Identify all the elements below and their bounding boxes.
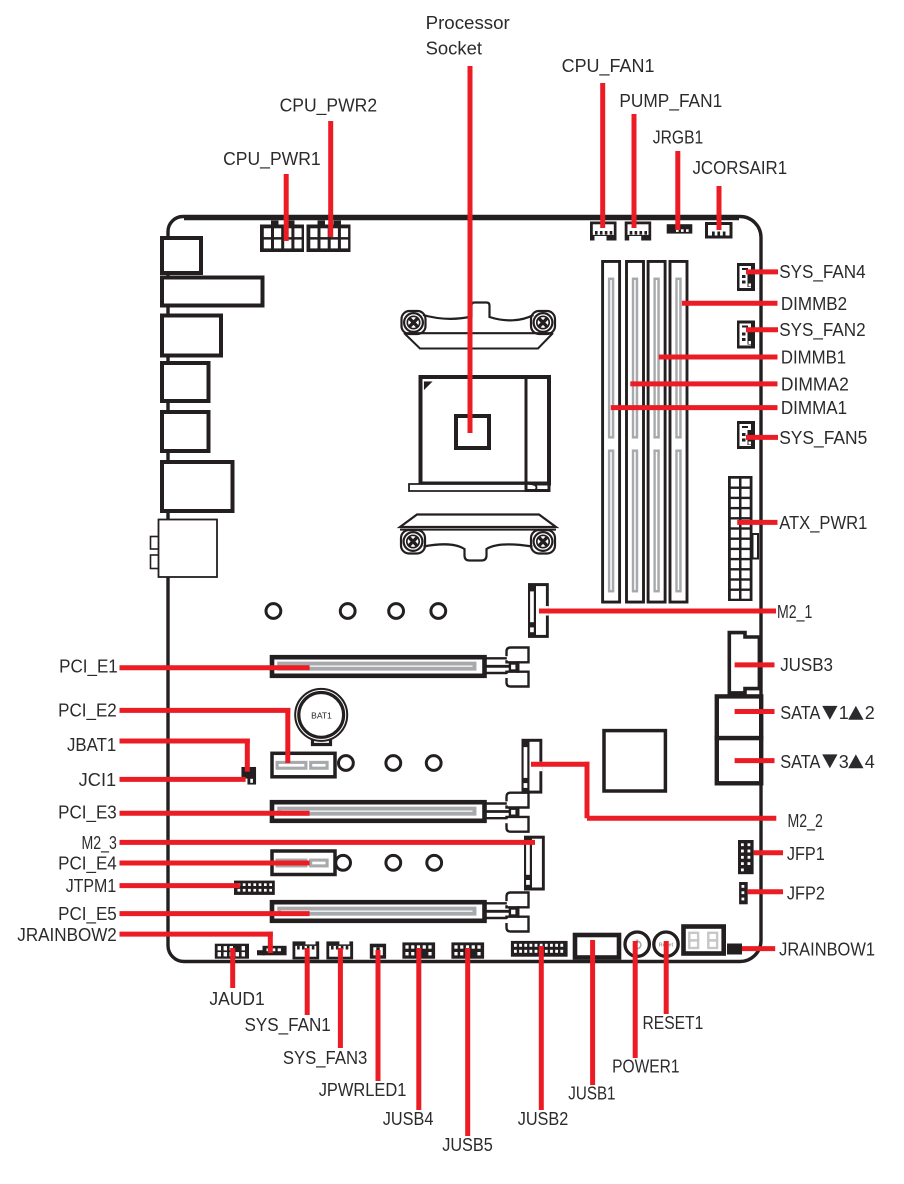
svg-text:PCI_E4: PCI_E4: [58, 853, 117, 874]
svg-text:JCORSAIR1: JCORSAIR1: [693, 158, 788, 178]
svg-text:M2_2: M2_2: [788, 811, 823, 832]
svg-text:JFP2: JFP2: [787, 884, 825, 904]
svg-text:JBAT1: JBAT1: [67, 735, 116, 755]
svg-text:DIMMA1: DIMMA1: [781, 398, 847, 418]
svg-text:DIMMB2: DIMMB2: [781, 294, 847, 314]
svg-text:M2_1: M2_1: [777, 602, 812, 623]
svg-text:JUSB2: JUSB2: [518, 1109, 569, 1129]
svg-text:SYS_FAN1: SYS_FAN1: [245, 1015, 331, 1036]
svg-text:POWER1: POWER1: [612, 1057, 680, 1077]
svg-text:JAUD1: JAUD1: [209, 989, 264, 1009]
svg-text:PCI_E3: PCI_E3: [58, 803, 117, 824]
svg-text:JPWRLED1: JPWRLED1: [319, 1080, 407, 1100]
svg-text:JTPM1: JTPM1: [66, 876, 117, 896]
svg-text:1: 1: [839, 703, 849, 723]
svg-text:DIMMB1: DIMMB1: [781, 348, 846, 368]
svg-text:Processor: Processor: [426, 13, 510, 33]
svg-text:SYS_FAN3: SYS_FAN3: [283, 1048, 367, 1069]
svg-text:4: 4: [865, 752, 875, 772]
svg-text:JFP1: JFP1: [787, 844, 825, 864]
svg-text:ATX_PWR1: ATX_PWR1: [779, 513, 867, 534]
svg-text:BAT1: BAT1: [311, 711, 332, 721]
svg-text:PUMP_FAN1: PUMP_FAN1: [619, 91, 722, 112]
svg-text:JRGB1: JRGB1: [653, 128, 703, 148]
svg-text:RESET1: RESET1: [643, 1013, 704, 1033]
svg-text:SYS_FAN2: SYS_FAN2: [779, 320, 865, 341]
svg-text:SATA: SATA: [780, 752, 820, 772]
svg-text:2: 2: [865, 703, 875, 723]
svg-text:CPU_FAN1: CPU_FAN1: [562, 56, 655, 77]
svg-text:JUSB5: JUSB5: [442, 1135, 493, 1155]
svg-text:Socket: Socket: [426, 39, 482, 59]
svg-text:PCI_E2: PCI_E2: [58, 701, 117, 722]
svg-text:JUSB1: JUSB1: [568, 1084, 615, 1104]
svg-text:JUSB3: JUSB3: [780, 655, 833, 675]
svg-text:M2_3: M2_3: [82, 833, 117, 854]
svg-text:CPU_PWR2: CPU_PWR2: [280, 96, 378, 117]
svg-text:JRAINBOW1: JRAINBOW1: [779, 940, 875, 960]
svg-text:PCI_E5: PCI_E5: [58, 904, 117, 925]
svg-text:CPU_PWR1: CPU_PWR1: [223, 149, 321, 170]
svg-text:DIMMA2: DIMMA2: [781, 375, 849, 395]
svg-text:SATA: SATA: [780, 703, 820, 723]
svg-text:JRAINBOW2: JRAINBOW2: [17, 925, 117, 945]
svg-text:SYS_FAN4: SYS_FAN4: [779, 262, 865, 283]
svg-text:PCI_E1: PCI_E1: [59, 657, 118, 678]
svg-text:JUSB4: JUSB4: [383, 1109, 434, 1129]
svg-text:3: 3: [839, 752, 849, 772]
svg-text:SYS_FAN5: SYS_FAN5: [779, 428, 867, 449]
svg-text:JCI1: JCI1: [79, 770, 117, 790]
